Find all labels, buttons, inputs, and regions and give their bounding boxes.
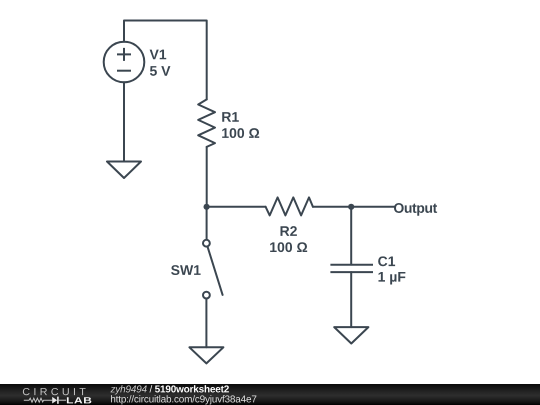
footer bar <box>0 384 540 405</box>
label R2 value 100 Ohm <box>270 242 307 252</box>
label R1 value 100 Ohm <box>222 128 259 138</box>
label C1 <box>378 256 395 266</box>
voltage source V1 <box>104 42 145 83</box>
wire R2 to Output <box>313 206 395 208</box>
CircuitLab logo <box>0 384 100 405</box>
resistor R1 <box>198 99 215 146</box>
wire V1 bottom to ground <box>123 82 125 161</box>
logo diode cathode bar <box>57 397 59 404</box>
ground (C1) <box>334 327 368 343</box>
label SW1 <box>171 265 201 275</box>
ground (V1) <box>107 162 141 179</box>
switch SW1 <box>203 240 223 299</box>
resistor R2 <box>266 197 313 215</box>
ground (SW1) <box>189 347 223 363</box>
capacitor C1 <box>330 265 373 272</box>
credit line 2: circuit url <box>111 395 256 404</box>
label V1 <box>150 50 167 60</box>
label C1 value 1 uF <box>378 272 405 285</box>
wire C1 to ground <box>350 272 352 327</box>
logo resistor zigzag <box>24 398 52 402</box>
wire node A to R2 <box>207 206 266 208</box>
wire node B to C1 <box>350 207 352 265</box>
wire R1 bottom to node A <box>206 147 208 207</box>
node A junction dot <box>204 204 210 210</box>
wire V1 top to R1 top <box>124 21 207 100</box>
label V1 value 5 V <box>150 66 170 76</box>
credit line 1: user / title <box>0 384 300 405</box>
label Output net <box>394 203 437 216</box>
label R1 <box>222 112 239 122</box>
wire SW1 to ground <box>205 299 207 348</box>
node B junction dot <box>348 204 354 210</box>
logo wire to LAB <box>59 399 66 401</box>
logo wordmark LAB <box>67 397 91 403</box>
wire node A to SW1 <box>206 207 208 240</box>
logo diode triangle <box>52 397 57 404</box>
label R2 <box>280 226 296 236</box>
logo wordmark CIRCUIT <box>23 388 86 395</box>
